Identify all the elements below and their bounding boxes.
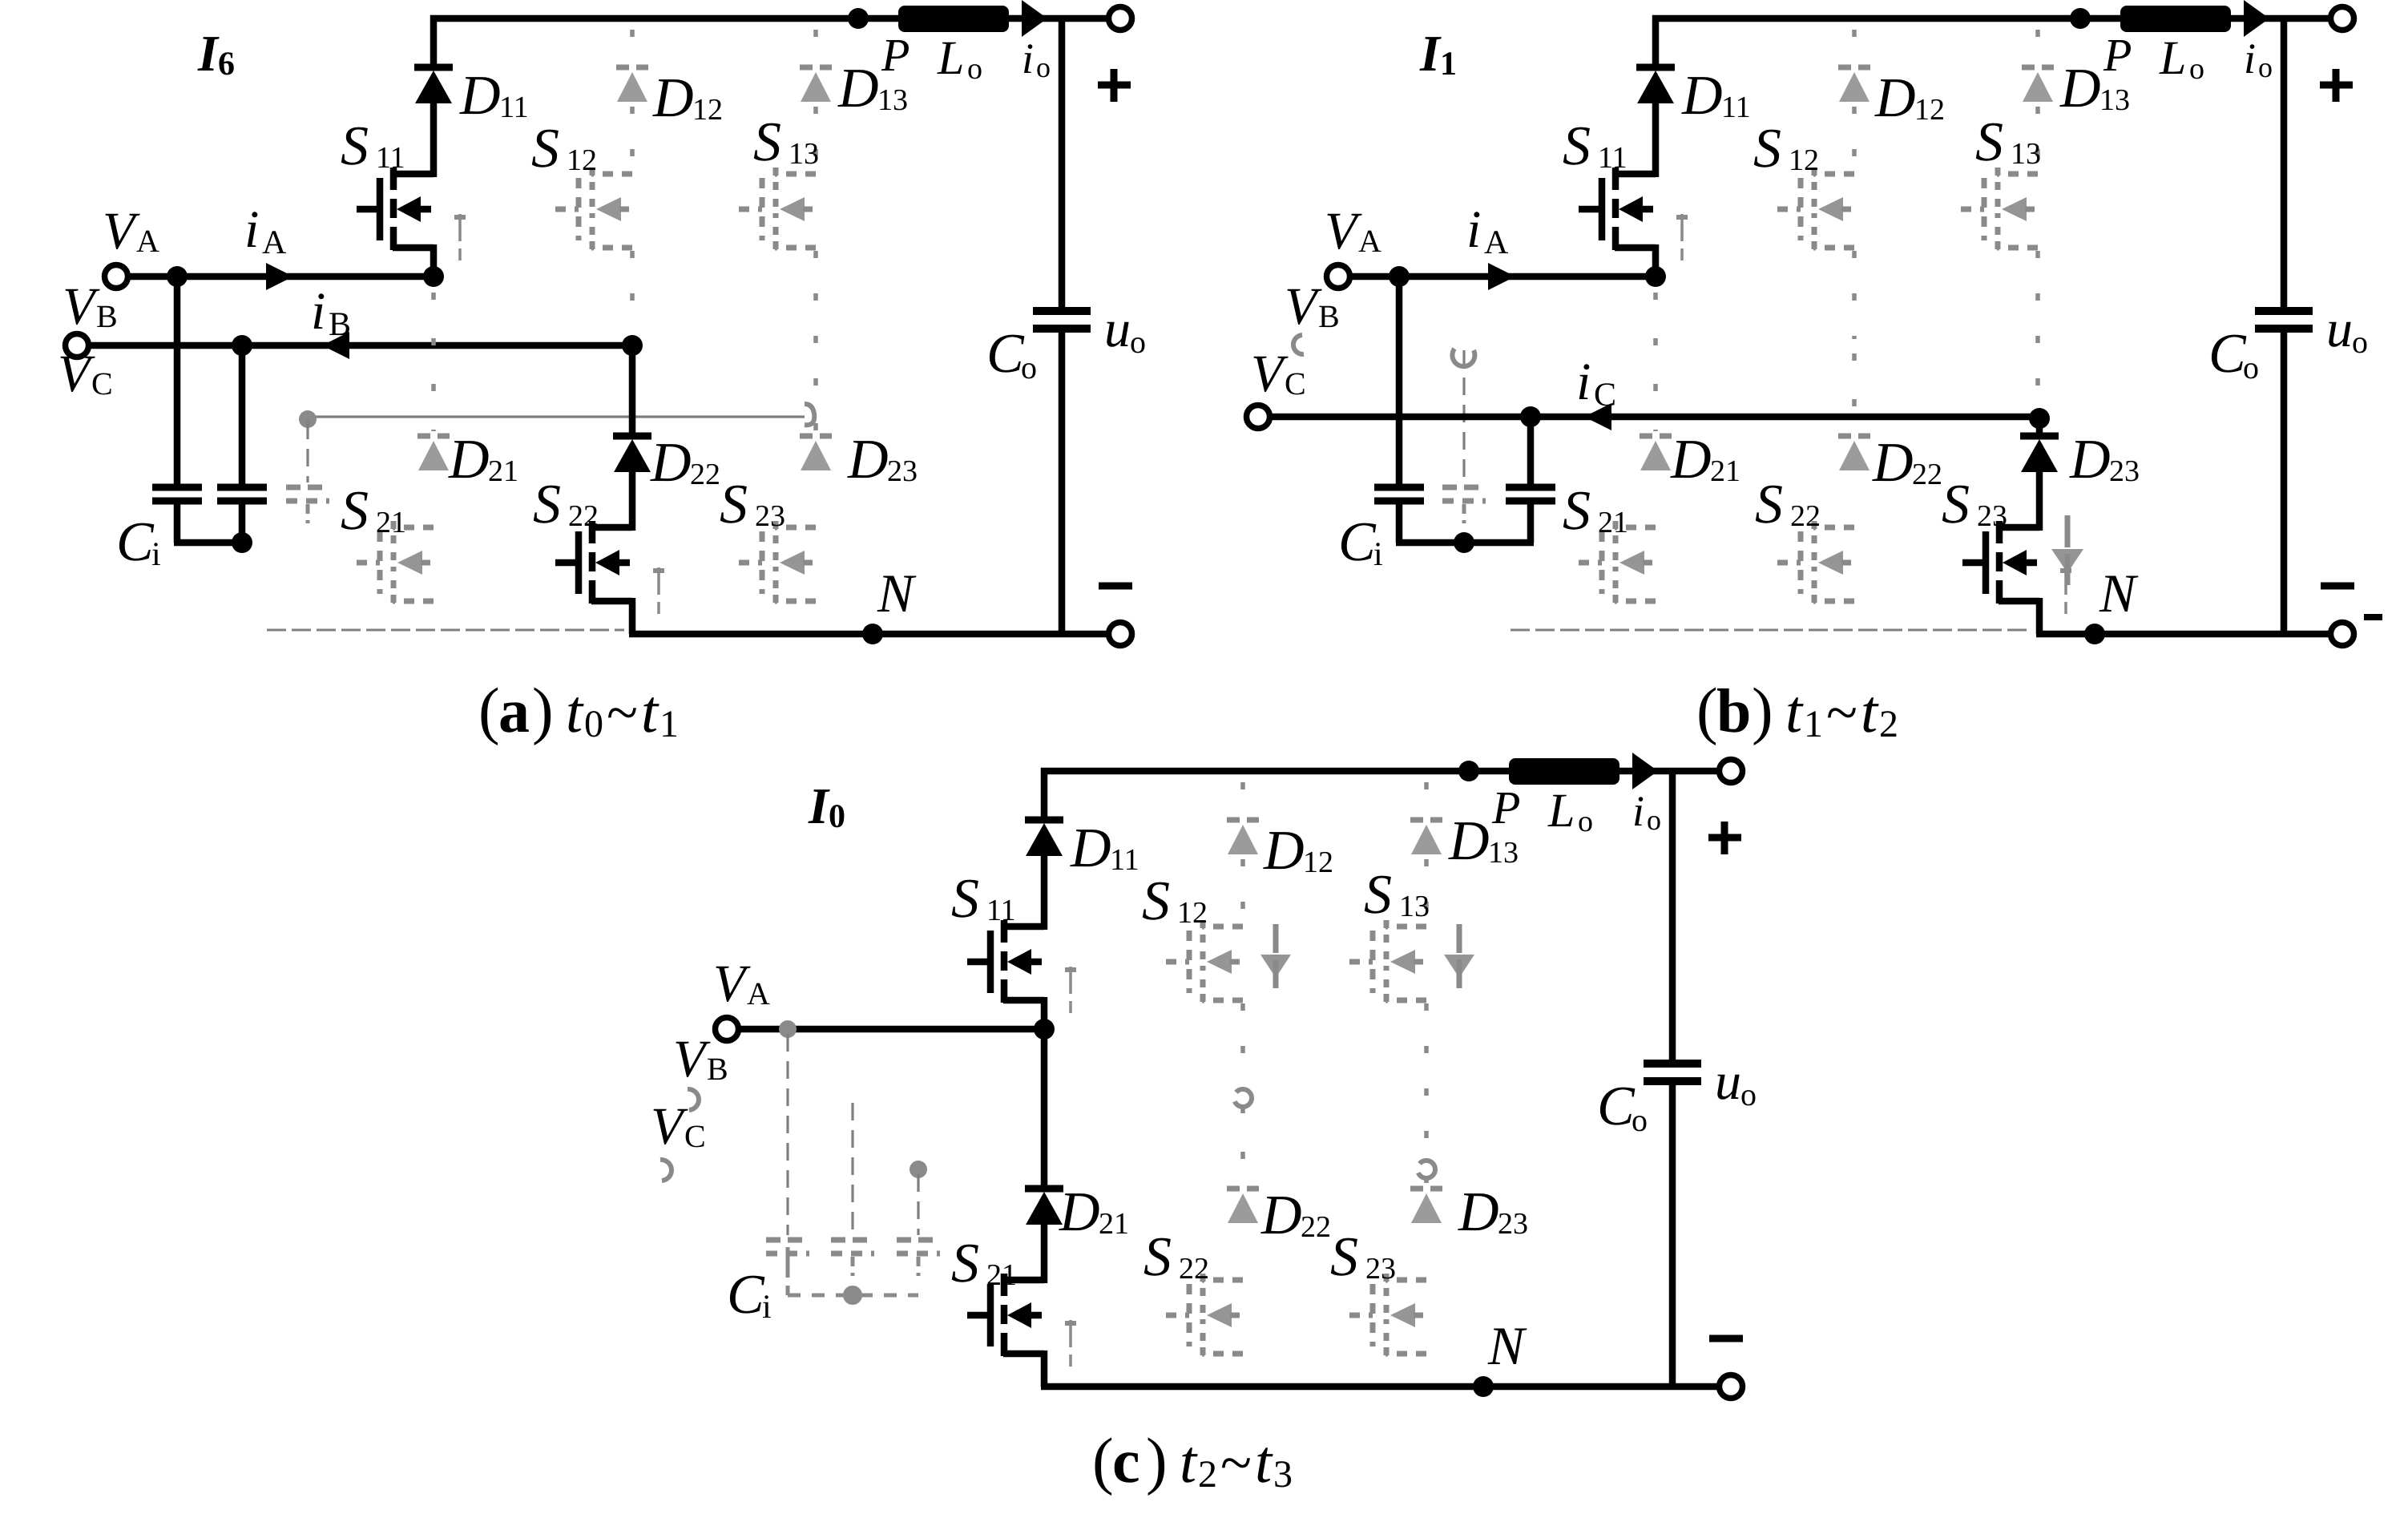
wire right rail upper (c) xyxy=(1669,768,1676,1060)
terminal - output (a) xyxy=(1109,623,1132,646)
wire phase A (b) xyxy=(1349,273,1656,281)
node N dot (a) xyxy=(862,624,883,644)
inductor Lo (a) xyxy=(898,6,1009,32)
wire ghost leg3 upper (a) xyxy=(813,30,818,407)
svg-text:D: D xyxy=(1260,1185,1302,1246)
svg-text:11: 11 xyxy=(376,141,405,175)
label S13 (b) xyxy=(1975,111,2041,173)
svg-text:22: 22 xyxy=(1912,458,1942,491)
svg-text:A: A xyxy=(1358,223,1381,259)
svg-text:(: ( xyxy=(1092,1426,1114,1496)
svg-text:3: 3 xyxy=(1273,1453,1293,1496)
svg-text:21: 21 xyxy=(488,454,518,488)
diode D13 ghost (b) xyxy=(2022,67,2054,102)
wire right rail lower (c) xyxy=(1669,1085,1676,1390)
wire S11 source to node A (a) xyxy=(430,244,438,280)
svg-text:C: C xyxy=(91,365,113,402)
diode D23 ghost (c) xyxy=(1410,1189,1442,1223)
svg-text:D: D xyxy=(1263,820,1305,882)
label VA (c) xyxy=(713,955,770,1013)
svg-text:12: 12 xyxy=(1177,896,1208,930)
svg-text:i: i xyxy=(1022,34,1034,83)
label S21 (b) xyxy=(1563,480,1628,542)
svg-text:P: P xyxy=(1491,781,1520,834)
svg-text:11: 11 xyxy=(1110,843,1139,877)
wire leg1 lower (c) xyxy=(1041,1026,1048,1189)
wire bottom rail (a) xyxy=(629,631,1111,638)
svg-text:S: S xyxy=(1563,115,1591,177)
label D23 (b) xyxy=(2069,429,2140,491)
terminal VB ghost arc (b) xyxy=(1293,335,1304,354)
label VC (a) xyxy=(58,345,113,403)
inductor Lo (c) xyxy=(1509,758,1619,785)
node ghost circle leg2 B (c) xyxy=(1234,1089,1252,1107)
label S12 (b) xyxy=(1753,118,1819,180)
terminal VB ghost arc (c) xyxy=(688,1089,699,1110)
svg-text:V: V xyxy=(58,345,95,403)
wire ghost leg2 lower (b) xyxy=(1852,353,1857,431)
mosfet S13 ghost (c) xyxy=(1349,920,1426,1003)
svg-text:D: D xyxy=(847,429,889,491)
label minus (c) xyxy=(1709,1335,1743,1342)
node A junction (b) xyxy=(1645,266,1666,287)
capacitor Co (a) xyxy=(1033,311,1091,329)
svg-text:21: 21 xyxy=(1598,506,1628,539)
node dot cap bus (a) xyxy=(232,532,252,553)
svg-text:13: 13 xyxy=(2011,137,2041,171)
svg-text:2: 2 xyxy=(1198,1453,1217,1496)
wire S11 source to node A (b) xyxy=(1652,244,1660,280)
terminal VA (c) xyxy=(716,1018,739,1041)
node dot leg2 B (a) xyxy=(622,335,643,356)
mosfet S12 ghost (a) xyxy=(555,168,632,250)
arrow io on top rail (b) xyxy=(2244,0,2269,37)
label P (c) xyxy=(1491,781,1520,834)
label S23 (c) xyxy=(1330,1226,1396,1288)
svg-text:C: C xyxy=(1338,511,1377,573)
node P dot (c) xyxy=(1458,761,1479,781)
label io (b) xyxy=(2244,34,2273,83)
svg-text:D: D xyxy=(1448,810,1490,872)
label Lo (c) xyxy=(1547,784,1593,838)
wire top rail P (b) xyxy=(1652,15,2333,22)
label D12 (c) xyxy=(1263,820,1333,882)
svg-text:11: 11 xyxy=(986,894,1016,927)
label S11 (c) xyxy=(951,868,1016,930)
label D22 (b) xyxy=(1872,432,1942,494)
svg-text:21: 21 xyxy=(1099,1207,1129,1241)
svg-text:P: P xyxy=(2103,29,2132,81)
diode D23 ghost (a) xyxy=(800,436,832,470)
svg-text:i: i xyxy=(244,200,259,259)
ghost arrow down beside S23 (b) xyxy=(2051,515,2083,585)
diode D13 ghost (c) xyxy=(1410,820,1442,854)
diode D23 (b) xyxy=(2020,436,2059,472)
label D22 (a) xyxy=(650,432,720,494)
svg-text:S: S xyxy=(1942,474,1970,535)
stray minus mark (b) xyxy=(2364,614,2382,620)
node dot cap C tap (b) xyxy=(1520,406,1541,427)
svg-text:C: C xyxy=(1597,1076,1636,1137)
wire S22 to rail (a) xyxy=(629,598,636,634)
svg-text:22: 22 xyxy=(568,499,599,533)
svg-text:I: I xyxy=(197,25,220,82)
diode D11 (a) xyxy=(414,67,453,103)
capacitor Ci phase C ghost (a) xyxy=(286,422,329,523)
svg-text:S: S xyxy=(1975,111,2003,173)
label D13 (b) xyxy=(2059,58,2130,119)
svg-text:D: D xyxy=(1874,67,1916,129)
svg-text:C: C xyxy=(1594,377,1616,414)
terminal + output (b) xyxy=(2331,7,2354,30)
svg-text:12: 12 xyxy=(1914,93,1945,127)
svg-text:i: i xyxy=(151,536,161,573)
svg-text:D: D xyxy=(1059,1181,1100,1243)
wire leg1 drain (c) xyxy=(1041,768,1048,930)
label iB (a) xyxy=(311,282,351,343)
node ghost circle leg3 C (c) xyxy=(1418,1161,1435,1178)
label D11 (c) xyxy=(1070,818,1139,879)
svg-text:I: I xyxy=(1419,25,1442,82)
label D11 (b) xyxy=(1681,65,1751,127)
svg-text:0: 0 xyxy=(584,703,603,745)
subfigure (a) I6 mode t0-t1 xyxy=(58,0,1146,646)
mosfet S23 (b) xyxy=(1962,521,2071,614)
label D12 (b) xyxy=(1874,67,1945,129)
svg-text:V: V xyxy=(1251,345,1289,403)
label Ci (c) xyxy=(727,1264,772,1326)
svg-text:): ) xyxy=(1146,1426,1168,1496)
svg-text:S: S xyxy=(1330,1226,1358,1288)
mosfet S11 (c) xyxy=(967,920,1076,1013)
svg-text:C: C xyxy=(684,1118,706,1154)
label Lo (a) xyxy=(937,31,982,86)
svg-text:L: L xyxy=(937,31,964,84)
svg-text:c: c xyxy=(1112,1426,1140,1496)
node ghost dot C line (c) xyxy=(910,1161,927,1178)
wire phase B (a) xyxy=(88,342,632,349)
label VA (a) xyxy=(103,202,159,260)
wire ghost leg3 upper (b) xyxy=(2035,30,2040,407)
wire S11 source to node A (c) xyxy=(1041,997,1048,1032)
wire ghost cap bus (c) xyxy=(788,1247,918,1295)
wire ghost leg3 lower (c) xyxy=(1424,1176,1429,1184)
node dot cap A tap (a) xyxy=(167,266,188,287)
arrow iA (a) xyxy=(266,263,293,290)
wire top rail P (c) xyxy=(1041,768,1721,775)
mosfet S22 ghost (c) xyxy=(1166,1274,1243,1356)
svg-text:): ) xyxy=(1752,676,1773,746)
caption (a) t0~t1 xyxy=(478,676,679,746)
label plus (a) xyxy=(1098,69,1131,102)
wire phase A (a) xyxy=(127,273,434,281)
node P dot (a) xyxy=(848,8,869,29)
label Co (c) xyxy=(1597,1076,1648,1138)
wire bottom rail (c) xyxy=(1041,1383,1721,1391)
node dot leg3 C (b) xyxy=(2029,408,2050,429)
svg-text:12: 12 xyxy=(1303,846,1333,879)
svg-text:13: 13 xyxy=(2099,83,2130,117)
label D23 (a) xyxy=(847,429,918,491)
wire ghost leg1 lower (b) xyxy=(1653,293,1658,431)
wire cap bus (b) xyxy=(1396,539,1534,547)
svg-text:21: 21 xyxy=(376,506,406,539)
svg-text:A: A xyxy=(262,224,287,261)
label plus (c) xyxy=(1708,822,1741,854)
svg-text:23: 23 xyxy=(1498,1207,1528,1241)
label Co (b) xyxy=(2208,323,2259,386)
svg-text:(: ( xyxy=(1696,676,1718,746)
wire bottom rail (b) xyxy=(2036,631,2333,638)
svg-text:o: o xyxy=(1130,324,1146,360)
svg-text:t: t xyxy=(1180,1428,1198,1496)
wire D23 to S23 (b) xyxy=(2036,472,2043,531)
diode D22 ghost (c) xyxy=(1227,1189,1259,1223)
svg-text:N: N xyxy=(877,563,917,624)
label I0 xyxy=(808,777,845,835)
mosfet S11 (b) xyxy=(1579,168,1688,260)
mosfet S13 ghost (a) xyxy=(739,168,816,250)
svg-text:B: B xyxy=(1318,298,1340,334)
node P dot (b) xyxy=(2070,8,2091,29)
svg-text:(: ( xyxy=(478,676,500,746)
svg-text:C: C xyxy=(116,511,155,573)
svg-text:12: 12 xyxy=(692,93,723,127)
terminal VB (a) xyxy=(66,334,89,357)
node ghost dot C-cap tap (a) xyxy=(299,410,317,428)
label P (b) xyxy=(2103,29,2132,81)
svg-text:S: S xyxy=(753,111,781,173)
capacitor Ci phase A (a) xyxy=(152,277,202,543)
diode D12 ghost (c) xyxy=(1227,820,1259,854)
label S23 (a) xyxy=(720,474,785,535)
terminal + output (a) xyxy=(1109,7,1132,30)
wire leg1 drain (b) xyxy=(1652,15,1660,177)
terminal VA (a) xyxy=(105,265,128,289)
svg-text:D: D xyxy=(1070,818,1111,879)
terminal VC (b) xyxy=(1247,406,1270,429)
svg-text:~: ~ xyxy=(607,680,638,745)
caption (b) t1~t2 xyxy=(1696,676,1898,746)
svg-text:i: i xyxy=(1466,200,1481,259)
mosfet S23 ghost (a) xyxy=(739,521,816,604)
svg-text:S: S xyxy=(531,118,559,180)
wire ghost leg3 lower (a) xyxy=(813,423,818,431)
node N dot (b) xyxy=(2084,624,2105,644)
label S22 (a) xyxy=(533,474,599,535)
wire cap bus (a) xyxy=(174,539,245,547)
wire top rail P (a) xyxy=(430,15,1111,22)
svg-text:S: S xyxy=(341,480,369,542)
svg-text:~: ~ xyxy=(1220,1431,1252,1495)
label iC (b) xyxy=(1576,353,1616,414)
svg-text:o: o xyxy=(1632,1102,1648,1138)
wire S23 to rail (b) xyxy=(2036,598,2043,634)
svg-text:o: o xyxy=(1740,1076,1757,1112)
wire phase C (b) xyxy=(1269,414,2038,421)
label N (c) xyxy=(1487,1315,1527,1376)
wire right rail lower (a) xyxy=(1059,333,1066,637)
svg-text:6: 6 xyxy=(218,46,235,83)
capacitor Ci phase C (b) xyxy=(1506,417,1555,543)
capacitor Ci phase B ghost (b) xyxy=(1442,349,1486,523)
capacitor Ci phase C ghost (c) xyxy=(897,1174,940,1276)
svg-text:13: 13 xyxy=(877,83,908,117)
svg-text:V: V xyxy=(1285,277,1322,336)
svg-text:S: S xyxy=(1755,474,1783,535)
arrow iB (a) xyxy=(322,332,349,359)
label I1 xyxy=(1419,25,1457,83)
svg-text:C: C xyxy=(1285,365,1306,402)
svg-text:C: C xyxy=(727,1264,765,1326)
node dot cap bus (b) xyxy=(1454,532,1474,553)
label plus (b) xyxy=(2320,69,2353,102)
capacitor Ci phase B (a) xyxy=(217,345,267,543)
caption (c) t2~t3 xyxy=(1092,1426,1293,1496)
subfigure (b) I1 mode t1-t2 xyxy=(1247,0,2383,646)
label uo (c) xyxy=(1715,1052,1757,1112)
svg-text:D: D xyxy=(2059,58,2101,119)
capacitor Ci phase A (b) xyxy=(1374,277,1424,543)
label D21 (b) xyxy=(1670,429,1740,491)
node ghost dot cap A tap (c) xyxy=(779,1020,797,1038)
svg-text:N: N xyxy=(1487,1315,1527,1376)
svg-text:o: o xyxy=(1021,349,1037,386)
svg-text:D: D xyxy=(2069,429,2111,491)
label D22 (c) xyxy=(1260,1185,1331,1246)
svg-text:V: V xyxy=(103,202,140,260)
svg-text:t: t xyxy=(1255,1428,1273,1496)
svg-text:I: I xyxy=(808,777,830,834)
svg-text:C: C xyxy=(2208,323,2247,385)
label S21 (a) xyxy=(341,480,406,542)
svg-text:i: i xyxy=(762,1289,772,1326)
svg-text:S: S xyxy=(951,868,979,930)
svg-text:23: 23 xyxy=(755,499,785,533)
svg-text:D: D xyxy=(1670,429,1712,491)
terminal + output (c) xyxy=(1720,760,1743,783)
mosfet S21 ghost (a) xyxy=(357,521,434,604)
capacitor Ci phase B ghost (c) xyxy=(831,1103,874,1276)
label Ci (a) xyxy=(116,511,161,573)
svg-text:D: D xyxy=(1681,65,1723,127)
label P (a) xyxy=(881,29,910,81)
wire ghost bottom rail (a) xyxy=(267,629,624,632)
svg-text:u: u xyxy=(2326,300,2353,358)
svg-text:o: o xyxy=(967,52,982,86)
svg-text:12: 12 xyxy=(1789,143,1819,177)
svg-text:23: 23 xyxy=(2109,454,2140,488)
diode D22 (a) xyxy=(613,436,651,472)
diode D21 ghost (b) xyxy=(1640,436,1672,470)
label I6 xyxy=(197,25,235,83)
svg-text:A: A xyxy=(136,223,159,259)
wire right rail upper (a) xyxy=(1059,15,1066,307)
svg-text:t: t xyxy=(566,678,584,745)
svg-text:2: 2 xyxy=(1879,703,1898,745)
label uo (b) xyxy=(2326,300,2368,360)
wire ghost leg2 upper (b) xyxy=(1852,30,1857,339)
wire ghost leg3 upper (c) xyxy=(1424,782,1429,1160)
mosfet S22 (a) xyxy=(555,521,664,614)
label Lo (b) xyxy=(2159,31,2204,86)
svg-text:B: B xyxy=(707,1051,728,1087)
svg-text:b: b xyxy=(1716,676,1751,745)
wire ghost leg2 upper (a) xyxy=(630,30,635,339)
label VB (c) xyxy=(673,1030,728,1088)
label iA (b) xyxy=(1466,200,1509,261)
mosfet S21 ghost (b) xyxy=(1579,521,1656,604)
svg-text:i: i xyxy=(1373,536,1383,573)
label S22 (c) xyxy=(1143,1226,1209,1288)
label S11 (a) xyxy=(341,115,405,177)
capacitor Co (b) xyxy=(2255,311,2313,329)
label Ci (b) xyxy=(1338,511,1383,573)
svg-text:t: t xyxy=(1861,678,1879,745)
diode D21 ghost (a) xyxy=(417,436,450,470)
mosfet S12 ghost (c) xyxy=(1166,920,1243,1003)
svg-text:S: S xyxy=(533,474,561,535)
svg-text:o: o xyxy=(2243,349,2259,386)
wire ghost leg1 lower (a) xyxy=(431,293,436,431)
label S21 (c) xyxy=(951,1233,1017,1294)
svg-text:P: P xyxy=(881,29,910,81)
diode D11 (c) xyxy=(1025,820,1063,856)
diode D21 (c) xyxy=(1025,1189,1063,1225)
mosfet S23 ghost (c) xyxy=(1349,1274,1426,1356)
terminal - output (b) xyxy=(2331,623,2354,646)
svg-text:21: 21 xyxy=(1710,454,1740,488)
inductor Lo (b) xyxy=(2120,6,2231,32)
svg-text:11: 11 xyxy=(1721,91,1751,124)
label D12 (a) xyxy=(652,67,723,129)
svg-text:B: B xyxy=(96,298,118,334)
label S12 (c) xyxy=(1142,870,1208,932)
svg-text:S: S xyxy=(720,474,748,535)
arrow io on top rail (c) xyxy=(1632,753,1658,789)
arrow iA (b) xyxy=(1488,263,1515,290)
wire phase C ghost (a) xyxy=(301,404,814,425)
svg-text:C: C xyxy=(986,323,1025,385)
label io (a) xyxy=(1022,34,1051,83)
subfigure (c) I0 mode t2-t3 xyxy=(651,753,1757,1399)
svg-text:22: 22 xyxy=(690,458,720,491)
label iA (a) xyxy=(244,200,287,261)
svg-text:1: 1 xyxy=(659,703,679,745)
svg-text:D: D xyxy=(459,65,501,127)
mosfet S12 ghost (b) xyxy=(1777,168,1854,250)
label VA (b) xyxy=(1325,202,1381,260)
mosfet S11 (a) xyxy=(357,168,466,260)
capacitor Ci phase A ghost (c) xyxy=(766,1034,809,1276)
node N dot (c) xyxy=(1473,1376,1494,1397)
terminal VA (b) xyxy=(1327,265,1350,289)
node A junction (a) xyxy=(423,266,444,287)
arrow iC (b) xyxy=(1584,403,1611,430)
ghost arrow down beside S12 (c) xyxy=(1260,924,1291,990)
svg-text:o: o xyxy=(2189,52,2204,86)
svg-text:A: A xyxy=(747,975,770,1011)
svg-text:V: V xyxy=(651,1097,688,1156)
label S12 (a) xyxy=(531,118,597,180)
terminal - output (c) xyxy=(1720,1375,1743,1399)
mosfet S21 (c) xyxy=(967,1274,1076,1367)
svg-text:13: 13 xyxy=(1399,890,1430,923)
wire D22 to S22 (a) xyxy=(629,472,636,531)
label S11 (b) xyxy=(1563,115,1628,177)
svg-text:~: ~ xyxy=(1826,680,1857,745)
svg-text:S: S xyxy=(1142,870,1170,932)
